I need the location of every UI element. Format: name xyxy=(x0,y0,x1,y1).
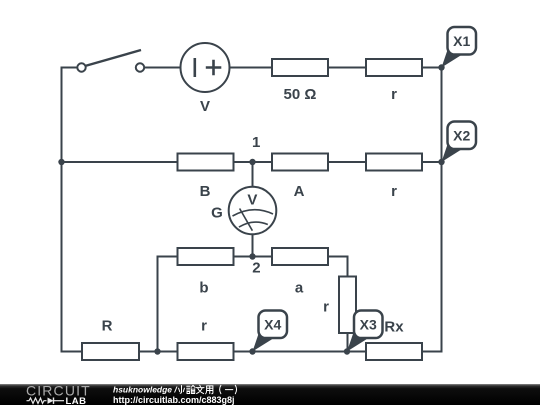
（ xyxy=(220,385,221,393)
svg-text:r: r xyxy=(201,318,207,335)
wire r4 to Rx xyxy=(234,351,367,353)
wire B to A through node 1 xyxy=(234,161,273,163)
svg-text:50 Ω: 50 Ω xyxy=(284,86,317,103)
wire A to r2 xyxy=(328,161,366,163)
wire source to 50ohm xyxy=(230,67,273,69)
用 xyxy=(206,386,213,394)
flag X3 tail xyxy=(347,330,367,352)
svg-text:G: G xyxy=(211,205,223,222)
svg-text:R: R xyxy=(102,318,113,335)
svg-text:Rx: Rx xyxy=(384,319,404,336)
svg-text:A: A xyxy=(294,183,305,200)
resistor Rx body xyxy=(366,343,422,360)
voltage source V1 plus sign xyxy=(206,60,222,75)
svg-text:X1: X1 xyxy=(453,33,470,49)
node 1 junction dot xyxy=(249,159,255,165)
wire right vertical xyxy=(422,68,442,352)
node X1 junction dot xyxy=(438,64,444,70)
footer line 1 cjk 小論文用（一） drawn glyphs xyxy=(179,385,237,394)
resistor b body xyxy=(178,248,234,265)
svg-text:http://circuitlab.com/c883g8j: http://circuitlab.com/c883g8j xyxy=(113,395,235,405)
node 2 junction dot xyxy=(249,253,255,259)
小 xyxy=(179,386,185,394)
wire row3 left corner xyxy=(158,257,178,352)
flag X1 box xyxy=(448,27,477,55)
svg-text:1: 1 xyxy=(252,134,260,151)
svg-text:r: r xyxy=(391,183,397,200)
node X3 junction dot xyxy=(344,348,350,354)
svg-text:r: r xyxy=(391,86,397,103)
wire r3 to X3 node xyxy=(347,333,349,352)
flag X4 box xyxy=(259,311,288,339)
switch SW1 blade xyxy=(85,50,141,66)
resistor r3 vertical body xyxy=(339,277,356,334)
論 xyxy=(187,385,195,393)
galvanometer G scale arc lower xyxy=(239,222,268,227)
voltage source V1 minus bar xyxy=(194,58,197,77)
wire R to r4 xyxy=(139,351,178,353)
svg-text:V: V xyxy=(200,98,210,115)
flag X1 tail xyxy=(442,46,462,68)
flag X2 box xyxy=(448,122,477,150)
galvanometer G body xyxy=(229,187,277,235)
resistor B body xyxy=(178,154,234,171)
wire 50ohm to r1 xyxy=(328,67,366,69)
junction dot bottom left xyxy=(154,348,160,354)
文 xyxy=(196,385,204,393)
svg-text:X2: X2 xyxy=(453,127,470,143)
svg-text:V: V xyxy=(247,192,257,209)
svg-text:B: B xyxy=(200,183,211,200)
galvanometer G scale arc upper xyxy=(233,210,274,216)
resistor A body xyxy=(272,154,328,171)
一 xyxy=(225,389,232,391)
svg-text:hsuknowledge /: hsuknowledge / xyxy=(113,385,178,395)
node X4 junction dot xyxy=(249,348,255,354)
flag X3 box xyxy=(354,311,383,339)
wire r2 to X2 node xyxy=(422,161,442,163)
flag X4 tail xyxy=(253,330,273,352)
svg-text:LAB: LAB xyxy=(66,396,87,405)
wire b to a through node 2 xyxy=(234,256,273,258)
） xyxy=(235,385,236,393)
wire node1 to galvanometer xyxy=(252,162,254,187)
wire row2 left xyxy=(62,161,178,163)
wire left vertical xyxy=(62,68,83,352)
switch SW1 left terminal xyxy=(77,63,85,71)
switch SW1 right terminal xyxy=(136,63,144,71)
voltage source V1 body xyxy=(181,43,230,92)
wire galvanometer to node2 xyxy=(252,234,254,256)
logo diode xyxy=(48,398,54,404)
svg-text:r: r xyxy=(323,299,329,316)
resistor r4 body xyxy=(178,343,234,360)
wire switch to source xyxy=(144,67,180,69)
resistor 50ohm body xyxy=(272,59,328,76)
resistor r2 body xyxy=(366,154,422,171)
galvanometer G needle xyxy=(240,209,253,231)
wire r1 to X1 node xyxy=(422,67,442,69)
junction dot row2 left xyxy=(58,159,64,165)
svg-text:X4: X4 xyxy=(264,316,281,332)
svg-text:X3: X3 xyxy=(360,316,377,332)
svg-text:b: b xyxy=(199,280,208,297)
logo resistor zigzag xyxy=(27,398,47,403)
svg-text:a: a xyxy=(295,280,304,297)
wire a to r3 corner xyxy=(328,257,348,277)
node X2 junction dot xyxy=(438,159,444,165)
flag X2 tail xyxy=(442,140,462,162)
svg-text:2: 2 xyxy=(252,260,260,277)
resistor R body xyxy=(82,343,139,360)
resistor r1 body xyxy=(366,59,422,76)
resistor a body xyxy=(272,248,328,265)
